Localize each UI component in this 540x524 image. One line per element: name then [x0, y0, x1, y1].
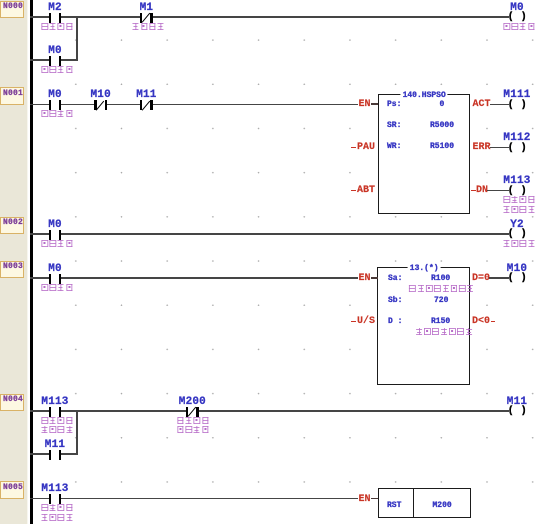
comment label 人机旋转 (under M200)	[176, 417, 209, 427]
RST mnemonic label	[387, 501, 401, 510]
left power rail	[30, 0, 33, 524]
comment label 伺服启动 (under Y2)	[502, 240, 535, 250]
coil Y2	[507, 229, 529, 241]
coil M113	[507, 186, 529, 198]
pin U/S (U2)	[351, 314, 379, 330]
contact M0 N003	[41, 262, 69, 286]
wire N002 rung	[30, 233, 509, 235]
device name label M111	[503, 89, 530, 101]
instruction block RST M200	[378, 488, 472, 519]
contact M200 (NC)	[178, 395, 206, 419]
block U2 title 13.(*)	[408, 264, 441, 273]
device name label M10	[90, 89, 110, 101]
contact M1 (NC)	[132, 1, 160, 25]
left margin panel	[0, 0, 27, 524]
U1 field SR: R5000	[387, 121, 401, 130]
device name label M11 (N001)	[136, 89, 156, 101]
wire N000 rung	[30, 16, 509, 18]
comment label 伺服命令 (N005)	[40, 504, 73, 514]
wire N005 rung	[30, 498, 358, 500]
contact M11 N004	[41, 438, 69, 462]
comment label 启动标致 (under M0 coil)	[502, 23, 535, 33]
comment label 启动标致 (N003)	[40, 284, 73, 294]
coil M10	[507, 273, 529, 285]
comment label 人机给定旋转圈数 (Sa comment)	[408, 285, 474, 295]
function block U1 140.HSPSO	[378, 94, 471, 214]
device name label M113	[503, 175, 530, 187]
comment label 脉冲输出量地址 (D comment)	[415, 328, 473, 338]
contact M113 N005	[41, 483, 69, 507]
wire N001 rung	[30, 104, 358, 106]
device name label M113 (N005)	[41, 483, 68, 495]
pin D=0 (U2)	[472, 274, 490, 283]
contact M11 N001 (NC)	[132, 89, 160, 113]
device name label M10 coil	[507, 263, 527, 275]
wire D=0 to coil M10	[489, 277, 509, 279]
device name label M0 (N003)	[48, 263, 62, 275]
rung label N003	[0, 261, 24, 279]
U2 field Sa: R100	[388, 274, 402, 283]
comment label 结束标致 (N005 line2)	[40, 514, 73, 524]
RST block divider	[413, 488, 415, 518]
comment label 结束标致 (under M113 line2)	[502, 206, 535, 216]
wire N000 branch (vertical)	[76, 16, 78, 61]
pin PAU (U1)	[351, 140, 379, 156]
pin ACT (U1)	[473, 100, 491, 109]
pin DN (U1)	[471, 183, 491, 199]
wire DN to coil M113	[487, 190, 509, 192]
comment label 启动标致 (N002)	[40, 240, 73, 250]
pin EN (RST)	[356, 491, 380, 507]
device name label M0 parallel	[48, 45, 62, 57]
rung label N001	[0, 87, 24, 105]
pin D<0 (U2, unconnected)	[471, 314, 497, 330]
comment label 人机停止 (under M1)	[132, 23, 165, 33]
rung label N004	[0, 394, 24, 412]
U2 field Sb: 720	[388, 296, 402, 305]
device name label M11 coil	[507, 396, 527, 408]
comment label 圈数触发 (under M200 line2)	[176, 426, 209, 436]
contact M0 N002	[41, 218, 69, 242]
wire N004 rung	[30, 410, 509, 412]
U2 field D : R150	[388, 317, 402, 326]
wire N004 parallel	[30, 453, 78, 455]
block U1 title 140.HSPSO	[401, 91, 448, 100]
pin EN (U1)	[356, 96, 380, 112]
pin ABT (U1)	[351, 183, 379, 199]
comment label 启动标致 (under M0)	[40, 66, 73, 76]
U1 field Ps: 0	[387, 100, 401, 109]
wire ERR to coil M112	[490, 147, 509, 149]
device name label M0 (N002)	[48, 219, 62, 231]
comment label 伺服命令 (under M113)	[502, 196, 535, 206]
rung label N002	[0, 217, 24, 235]
device name label M2	[48, 2, 62, 14]
device name label Y2	[510, 219, 524, 231]
coil M0	[507, 12, 529, 24]
device name label M0 (N001)	[48, 89, 62, 101]
coil M111	[507, 100, 529, 112]
RST operand M200	[433, 501, 452, 510]
wire N004 branch (vertical)	[76, 410, 78, 455]
device name label M113 (N004)	[41, 396, 68, 408]
contact M2	[41, 1, 69, 25]
wire ACT to coil M111	[490, 104, 509, 106]
rung label N000	[0, 1, 24, 19]
pin EN (U2)	[356, 270, 380, 286]
comment label 伺服命令 (N004)	[40, 417, 73, 427]
contact M0 parallel	[41, 44, 69, 68]
wire N003 rung	[30, 277, 358, 279]
pin ERR (U1)	[473, 143, 491, 152]
device name label M1	[140, 2, 154, 14]
function block U2 13.(*) multiply	[377, 267, 470, 385]
device name label M0 coil N000	[510, 2, 524, 14]
device name label M200	[179, 396, 206, 408]
coil M112	[507, 143, 529, 155]
comment label 人机启动 (under M2)	[40, 23, 73, 33]
rung label N005	[0, 481, 24, 499]
U1 field WR: R5100	[387, 142, 401, 151]
contact M113 N004	[41, 395, 69, 419]
wire N000 parallel	[30, 59, 78, 61]
device name label M112	[503, 132, 530, 144]
device name label M11 (parallel)	[45, 439, 65, 451]
comment label 结束标致 (N004 line2)	[40, 426, 73, 436]
contact M10 (NC)	[87, 89, 115, 113]
coil M11	[507, 406, 529, 418]
contact M0 N001	[41, 89, 69, 113]
comment label 启动标致 (N001)	[40, 110, 73, 120]
